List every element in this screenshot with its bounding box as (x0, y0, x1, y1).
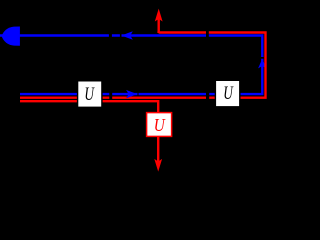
arrowhead: small blue arrow pointing left on top conductor (122, 31, 133, 40)
node A: hidden black crossing wire gap at x=110 (top line) (109, 30, 112, 40)
arrowhead: red arrow pointing up at top (voltage arrow U) (155, 9, 163, 22)
arrowhead: red arrow pointing down at bottom (voltage arrow U) (154, 159, 162, 172)
arrowhead: small blue arrow pointing up on right vertical conductor (258, 59, 266, 69)
svg-text:U: U (223, 83, 234, 104)
wire: second red conductor along bottom turning down at x=158.2 toward lower voltage arrow (20, 101, 158, 167)
node C: hidden black crossing wire gap at x=207 (top lines) (206, 30, 209, 40)
node B: hidden black crossing wire gap at x=110 (bottom lines, blue+first red) (109, 92, 112, 99)
wire: tip gap right of bottom blue arrow (138, 93, 139, 96)
arrowhead: small blue arrow pointing right on bottom conductor (drawn over red line) (126, 90, 137, 98)
svg-text:U: U (84, 84, 95, 105)
arrowhead: big blue arrow pointing left at top-left (2, 27, 20, 46)
wire: tip gap left of top-middle blue arrow (120, 34, 122, 37)
wire: top blue conductor (runs along top, down the right side, back along bottom to x=20) (0, 36, 262, 95)
voltmeter U2: white box on bottom-right conductor (215, 80, 239, 107)
svg-text:U: U (154, 115, 166, 135)
wire: red stub of upward voltage arrow at top (157, 18, 159, 34)
wire: top red conductor (from node at x=158.6 right, down the right side, back along bottom to x=20) (20, 33, 266, 98)
voltmeter U1: white box on bottom-left conductor (78, 81, 102, 108)
node D: hidden black crossing wire gap at x=207 (bottom lines) (206, 92, 209, 99)
wire: tip gap above right-vertical blue arrow (261, 57, 264, 59)
voltmeter U3: red-bordered white box on downward red branch (147, 113, 172, 137)
